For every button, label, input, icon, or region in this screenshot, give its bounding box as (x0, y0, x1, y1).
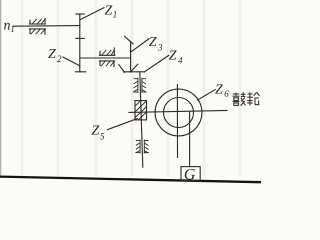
svg-text:2: 2 (57, 54, 62, 64)
svg-text:3: 3 (157, 43, 163, 53)
svg-text:4: 4 (178, 56, 183, 66)
svg-text:Z: Z (105, 4, 113, 19)
svg-text:1: 1 (10, 24, 15, 34)
svg-text:6: 6 (224, 89, 229, 99)
svg-text:Z: Z (169, 49, 177, 64)
svg-text:Z: Z (149, 35, 157, 50)
svg-text:Z: Z (92, 124, 100, 139)
svg-text:5: 5 (100, 132, 105, 142)
svg-text:G: G (184, 167, 196, 184)
svg-text:Z: Z (215, 83, 223, 98)
svg-text:1: 1 (113, 10, 118, 20)
svg-text:Z: Z (48, 47, 56, 62)
